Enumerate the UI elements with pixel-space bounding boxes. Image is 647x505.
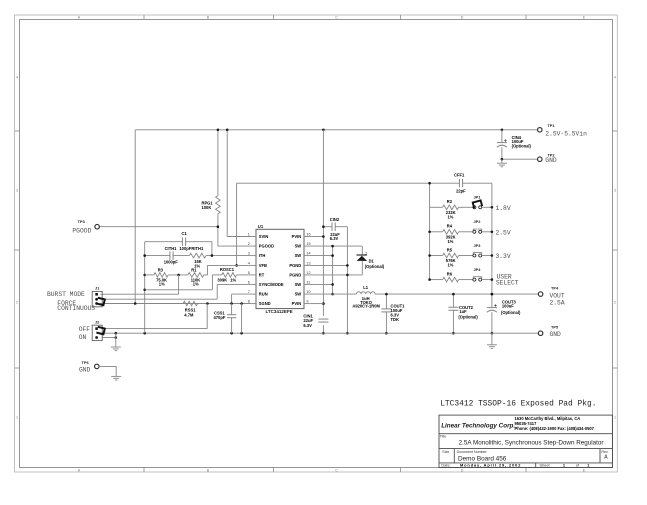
svg-text:4: 4 (16, 75, 18, 79)
svg-text:Monday, April 29, 2002: Monday, April 29, 2002 (460, 462, 521, 467)
svg-text:BURST MODE: BURST MODE (47, 291, 85, 298)
svg-text:15: 15 (306, 242, 310, 246)
svg-text:2: 2 (365, 251, 367, 255)
svg-text:Linear Technology Corp.: Linear Technology Corp. (441, 422, 515, 429)
svg-text:ON: ON (79, 334, 87, 341)
svg-text:SW: SW (295, 253, 302, 258)
svg-text:R1: R1 (191, 267, 197, 272)
svg-text:SVIN: SVIN (259, 234, 269, 239)
svg-text:C1: C1 (182, 231, 188, 236)
svg-text:1uF: 1uF (459, 309, 467, 314)
svg-text:1%: 1% (230, 278, 236, 283)
svg-text:1: 1 (16, 415, 18, 419)
svg-text:1%: 1% (193, 282, 199, 287)
svg-text:100K: 100K (202, 205, 212, 210)
svg-text:2.5A: 2.5A (550, 300, 565, 307)
svg-text:U1: U1 (258, 224, 264, 229)
svg-text:4: 4 (614, 75, 616, 79)
svg-text:100uF: 100uF (502, 304, 514, 309)
svg-text:JP4: JP4 (474, 267, 482, 272)
svg-text:Rev: Rev (601, 450, 608, 454)
svg-text:16: 16 (306, 233, 310, 237)
svg-text:LTC3412 TSSOP-16 Exposed Pad P: LTC3412 TSSOP-16 Exposed Pad Pkg. (440, 399, 596, 408)
svg-text:95035-7417: 95035-7417 (515, 421, 538, 426)
svg-text:(Optional): (Optional) (512, 143, 532, 148)
svg-text:PVIN: PVIN (292, 234, 302, 239)
svg-text:4.7M: 4.7M (184, 312, 194, 317)
svg-text:1%: 1% (159, 282, 165, 287)
svg-text:22pF: 22pF (456, 188, 466, 193)
svg-text:L1: L1 (363, 285, 369, 290)
svg-text:Document Number: Document Number (457, 450, 488, 454)
svg-text:Phone: (408)432-1900 Fax: (408: Phone: (408)432-1900 Fax: (408)434-0507 (515, 426, 595, 431)
svg-text:10: 10 (306, 290, 310, 294)
svg-text:SELECT: SELECT (496, 280, 519, 287)
svg-text:9: 9 (306, 300, 308, 304)
svg-text:1.8V: 1.8V (496, 205, 511, 212)
svg-text:GND: GND (545, 157, 557, 164)
svg-text:RT: RT (259, 272, 265, 277)
svg-text:3.3V: 3.3V (496, 253, 511, 260)
svg-text:CFF1: CFF1 (454, 172, 465, 177)
svg-text:100pF: 100pF (179, 246, 191, 251)
svg-text:TDK: TDK (391, 317, 399, 322)
svg-text:TP3: TP3 (78, 219, 86, 224)
svg-text:R5: R5 (447, 247, 453, 252)
svg-text:GND: GND (79, 367, 91, 374)
svg-text:(Optional): (Optional) (458, 315, 478, 320)
svg-text:13: 13 (306, 261, 310, 265)
svg-text:GND: GND (550, 331, 562, 338)
svg-text:SW: SW (295, 292, 302, 297)
svg-text:Date:: Date: (441, 462, 450, 467)
svg-text:JP2: JP2 (474, 219, 482, 224)
svg-text:11: 11 (306, 280, 310, 284)
svg-text:(Optional): (Optional) (365, 264, 385, 269)
svg-text:7: 7 (248, 290, 250, 294)
svg-text:TP1: TP1 (547, 123, 555, 128)
svg-text:3: 3 (614, 188, 616, 192)
svg-text:PVIN: PVIN (292, 301, 302, 306)
svg-text:D: D (461, 468, 464, 472)
svg-text:SYNC/MODE: SYNC/MODE (259, 282, 284, 287)
svg-text:12: 12 (306, 271, 310, 275)
svg-text:2.5V: 2.5V (496, 229, 511, 236)
svg-text:2: 2 (248, 242, 250, 246)
svg-text:D1: D1 (369, 259, 375, 264)
svg-text:R3: R3 (158, 267, 164, 272)
svg-text:4: 4 (248, 261, 250, 265)
svg-text:JP1: JP1 (474, 195, 482, 200)
svg-text:Title: Title (440, 435, 447, 439)
svg-text:SW: SW (295, 244, 302, 249)
svg-text:TP5: TP5 (551, 324, 559, 329)
svg-text:Size: Size (442, 450, 449, 454)
svg-text:1%: 1% (448, 263, 454, 268)
svg-text:TP6: TP6 (82, 360, 90, 365)
svg-text:8: 8 (248, 300, 250, 304)
svg-text:1%: 1% (448, 214, 454, 219)
svg-text:PGOOD: PGOOD (259, 244, 274, 249)
svg-text:ITH: ITH (259, 253, 266, 258)
svg-text:D: D (461, 16, 464, 20)
svg-text:SGND: SGND (259, 301, 271, 306)
svg-text:RUN: RUN (259, 292, 268, 297)
svg-text:C: C (335, 16, 338, 20)
svg-text:PGND: PGND (289, 272, 301, 277)
svg-text:R6: R6 (447, 271, 453, 276)
svg-text:CONTINUOUS: CONTINUOUS (57, 305, 95, 312)
svg-text:3: 3 (16, 188, 18, 192)
svg-text:Sheet: Sheet (539, 462, 550, 467)
svg-text:RITH1: RITH1 (191, 246, 204, 251)
svg-text:SW: SW (295, 282, 302, 287)
svg-text:14: 14 (306, 252, 310, 256)
svg-text:2: 2 (16, 300, 18, 304)
svg-text:PGOOD: PGOOD (72, 227, 91, 234)
svg-text:(Optional): (Optional) (501, 310, 521, 315)
svg-text:CIN2: CIN2 (330, 217, 340, 222)
svg-text:CITH1: CITH1 (165, 246, 178, 251)
svg-text:R2: R2 (447, 199, 453, 204)
svg-text:6.3V: 6.3V (303, 323, 312, 328)
svg-text:A920CY-1R0M: A920CY-1R0M (352, 304, 380, 309)
svg-text:OFF: OFF (79, 326, 91, 333)
svg-text:1: 1 (248, 233, 250, 237)
svg-text:5: 5 (248, 271, 250, 275)
svg-text:TP4: TP4 (551, 286, 559, 291)
svg-text:1: 1 (614, 415, 616, 419)
svg-text:VOUT: VOUT (550, 292, 565, 299)
svg-text:6: 6 (248, 280, 250, 284)
svg-text:R4: R4 (447, 224, 453, 229)
svg-text:2.5V-5.5Vin: 2.5V-5.5Vin (545, 131, 587, 138)
svg-text:LTC3412EFE: LTC3412EFE (266, 309, 293, 314)
svg-text:309K: 309K (217, 278, 227, 283)
svg-text:2.5A Monolithic, Synchronous S: 2.5A Monolithic, Synchronous Step-Down R… (459, 440, 604, 447)
svg-text:Demo Board 456: Demo Board 456 (458, 455, 507, 462)
svg-text:6.3V: 6.3V (330, 236, 339, 241)
svg-text:JP3: JP3 (474, 243, 482, 248)
svg-text:ROSC1: ROSC1 (220, 267, 235, 272)
svg-text:1000pF: 1000pF (164, 260, 179, 265)
svg-text:1%: 1% (448, 239, 454, 244)
svg-text:2: 2 (614, 300, 616, 304)
svg-text:470pF: 470pF (214, 315, 226, 320)
svg-text:3: 3 (248, 252, 250, 256)
svg-text:PGND: PGND (289, 263, 301, 268)
svg-text:VFB: VFB (259, 263, 267, 268)
svg-text:C: C (335, 468, 338, 472)
